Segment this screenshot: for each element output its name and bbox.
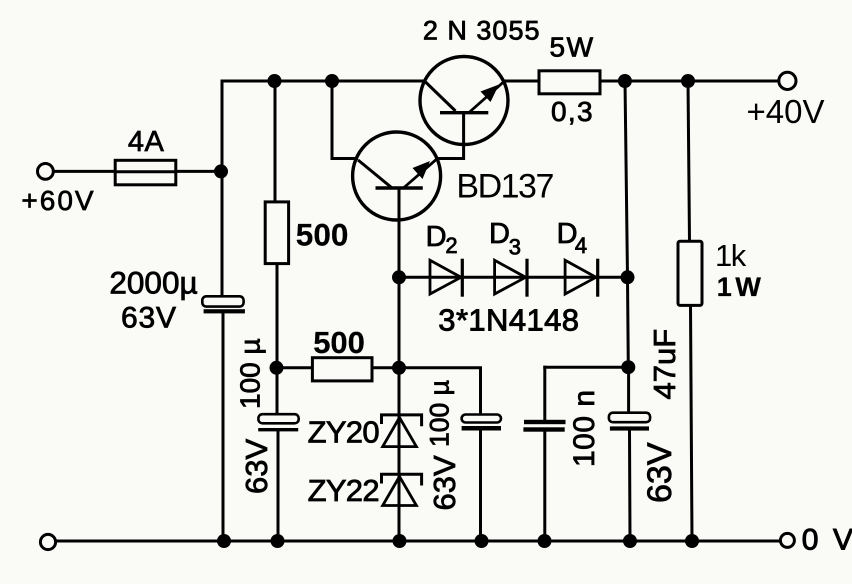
svg-text:2 N 3055: 2 N 3055 xyxy=(423,16,541,46)
svg-text:63V: 63V xyxy=(121,301,177,334)
svg-text:0: 0 xyxy=(802,524,819,557)
svg-text:47uF: 47uF xyxy=(647,329,682,400)
svg-text:3*1N4148: 3*1N4148 xyxy=(438,303,579,338)
svg-text:2: 2 xyxy=(445,233,457,258)
svg-text:+60V: +60V xyxy=(21,185,95,216)
svg-text:500: 500 xyxy=(296,217,349,253)
svg-text:ZY22: ZY22 xyxy=(308,473,379,508)
svg-text:D: D xyxy=(489,218,510,250)
svg-text:4: 4 xyxy=(575,233,587,258)
svg-text:ZY20: ZY20 xyxy=(308,415,380,450)
svg-text:63V: 63V xyxy=(239,439,274,494)
svg-text:2000µ: 2000µ xyxy=(109,265,197,301)
svg-text:5W: 5W xyxy=(550,31,595,62)
svg-text:BD137: BD137 xyxy=(456,168,553,206)
svg-text:100 n: 100 n xyxy=(568,389,601,467)
svg-text:D: D xyxy=(426,221,447,253)
svg-text:4A: 4A xyxy=(128,126,165,158)
svg-text:V: V xyxy=(833,524,852,557)
svg-text:63V: 63V xyxy=(427,455,462,510)
svg-text:+40V: +40V xyxy=(747,93,825,130)
svg-text:63V: 63V xyxy=(641,442,679,503)
svg-text:1 W: 1 W xyxy=(717,272,762,302)
svg-text:1k: 1k xyxy=(715,238,747,273)
svg-text:100 µ: 100 µ xyxy=(235,338,266,409)
svg-text:3: 3 xyxy=(509,234,521,259)
svg-text:500: 500 xyxy=(313,325,365,360)
svg-text:0,3: 0,3 xyxy=(551,96,594,127)
svg-text:100 µ: 100 µ xyxy=(425,380,455,447)
